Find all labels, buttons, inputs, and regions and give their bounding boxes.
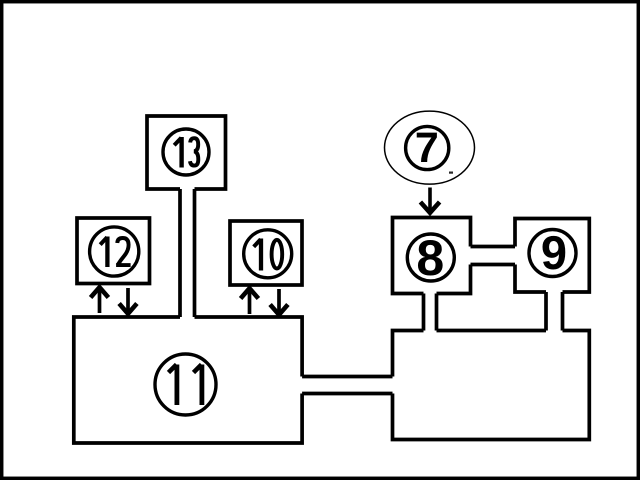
channel 8 to 9 top wall	[471, 245, 516, 249]
arrow down 12-11	[119, 288, 137, 314]
channel 8 down right wall	[435, 294, 439, 331]
channel 13 to 11 right wall	[193, 189, 197, 317]
channel 8 to 9 bottom wall	[471, 263, 516, 267]
circle 7	[406, 124, 449, 172]
right lower box	[393, 331, 590, 440]
circle 13	[163, 129, 209, 175]
svg-text:8: 8	[416, 230, 444, 286]
box 10	[230, 221, 302, 285]
channel 11 to right box top wall	[302, 375, 392, 379]
box 13	[147, 116, 226, 189]
arrow 7 to 8	[420, 188, 439, 213]
circle 10	[244, 230, 292, 278]
box 12	[77, 218, 150, 284]
svg-text:7: 7	[415, 124, 439, 172]
circle 11	[155, 354, 216, 415]
channel 11 to right box bottom wall	[302, 392, 392, 396]
box 8	[393, 218, 471, 294]
arrow down 10-11	[270, 289, 288, 315]
channel 9 down right wall	[561, 292, 565, 331]
arrow up 10-11	[241, 288, 259, 314]
box 9	[515, 219, 589, 293]
ellipse 7	[385, 111, 475, 184]
svg-text:9: 9	[541, 226, 567, 279]
channel 9 down left wall	[544, 292, 548, 331]
channel 8 down left wall	[422, 294, 426, 331]
arrow up 12-11	[91, 287, 109, 313]
speck artifact	[449, 172, 453, 174]
box 11	[74, 317, 302, 443]
circle 8	[407, 230, 454, 286]
circle 12	[90, 227, 139, 276]
circle 9	[529, 226, 576, 279]
channel 13 to 11 left wall	[178, 189, 182, 317]
